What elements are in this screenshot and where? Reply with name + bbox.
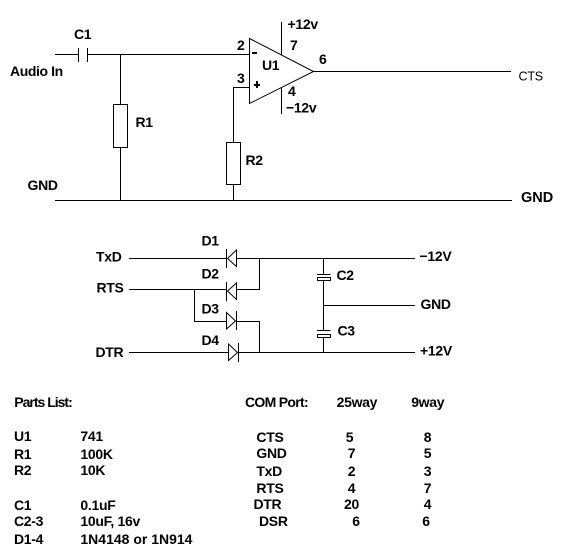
svg-text:5: 5 bbox=[346, 429, 354, 445]
wire: GND to C3 bbox=[323, 306, 325, 331]
svg-text:D2: D2 bbox=[202, 266, 220, 282]
wire: D4 to +12V rail bbox=[239, 352, 416, 354]
capacitor C3 bbox=[317, 331, 331, 338]
svg-text:DSR: DSR bbox=[259, 513, 288, 529]
wire: RTS to D2 bbox=[129, 289, 227, 291]
svg-text:GND: GND bbox=[256, 445, 286, 461]
svg-text:RTS: RTS bbox=[97, 280, 124, 296]
svg-text:4: 4 bbox=[348, 480, 356, 496]
wire: -12V rail to C2 bbox=[323, 259, 325, 275]
svg-text:3: 3 bbox=[424, 463, 432, 479]
wire: GND rail (middle) bbox=[324, 305, 416, 307]
table row DTR bbox=[254, 496, 432, 512]
svg-text:D1: D1 bbox=[202, 233, 220, 249]
svg-text:C3: C3 bbox=[338, 323, 356, 339]
svg-text:D4: D4 bbox=[202, 332, 220, 348]
svg-text:6: 6 bbox=[352, 513, 360, 529]
svg-text:−12V: −12V bbox=[420, 248, 453, 264]
capacitor C1 bbox=[79, 48, 88, 62]
svg-text:CTS: CTS bbox=[256, 429, 283, 445]
wire: pin 4 -12v supply bbox=[281, 88, 283, 115]
svg-text:6: 6 bbox=[319, 51, 327, 67]
wire: Audio In lead bbox=[55, 54, 78, 56]
diode D2 bbox=[227, 282, 237, 301]
table row CTS bbox=[256, 429, 431, 445]
svg-text:COM Port:: COM Port: bbox=[245, 394, 308, 410]
wire: TxD to D1 bbox=[129, 258, 227, 260]
svg-text:5: 5 bbox=[424, 445, 432, 461]
svg-text:CTS: CTS bbox=[519, 70, 543, 84]
resistor R2 bbox=[227, 143, 241, 185]
wire: node to R1 top bbox=[120, 55, 122, 105]
svg-text:6: 6 bbox=[422, 513, 430, 529]
svg-text:TxD: TxD bbox=[96, 249, 122, 265]
wire: R1 to ground rail bbox=[120, 148, 122, 201]
svg-text:R2: R2 bbox=[246, 152, 264, 168]
svg-text:10K: 10K bbox=[80, 462, 105, 478]
diode D1 bbox=[227, 249, 237, 268]
svg-text:20: 20 bbox=[344, 496, 359, 512]
svg-text:C2: C2 bbox=[337, 267, 355, 283]
svg-text:D3: D3 bbox=[202, 301, 220, 317]
svg-text:+12V: +12V bbox=[420, 343, 453, 359]
svg-text:Parts List:: Parts List: bbox=[14, 394, 72, 410]
svg-text:D1-4: D1-4 bbox=[14, 531, 44, 547]
svg-text:9way: 9way bbox=[411, 394, 445, 410]
svg-text:GND: GND bbox=[28, 177, 58, 193]
svg-text:R1: R1 bbox=[136, 114, 154, 130]
table row RTS bbox=[256, 480, 431, 496]
svg-text:100K: 100K bbox=[80, 446, 112, 462]
svg-text:Audio In: Audio In bbox=[10, 63, 63, 79]
table row GND bbox=[256, 445, 431, 461]
wire: D3 to D4 anode junction bbox=[237, 322, 260, 353]
svg-text:4: 4 bbox=[288, 83, 296, 99]
svg-text:741: 741 bbox=[80, 428, 103, 444]
wire: C1 to U1 pin 2 bbox=[88, 54, 250, 56]
svg-text:R2: R2 bbox=[14, 462, 32, 478]
svg-text:8: 8 bbox=[424, 429, 432, 445]
diode D3 bbox=[227, 311, 237, 330]
svg-text:U1: U1 bbox=[14, 428, 32, 444]
svg-text:GND: GND bbox=[521, 190, 553, 206]
wire: C3 to +12V rail bbox=[323, 338, 325, 353]
COM port table header bbox=[245, 394, 445, 410]
diode D4 bbox=[229, 343, 239, 362]
wire: D2 to D1 cathode junction bbox=[237, 259, 260, 290]
svg-text:R1: R1 bbox=[14, 446, 32, 462]
svg-text:25way: 25way bbox=[337, 394, 378, 410]
svg-text:2: 2 bbox=[237, 37, 245, 53]
svg-text:C1: C1 bbox=[74, 26, 92, 42]
wire: C2 to GND rail bbox=[323, 281, 325, 306]
svg-text:C2-3: C2-3 bbox=[14, 513, 44, 529]
table row TxD bbox=[256, 463, 431, 479]
wire: U1 output to CTS bbox=[314, 71, 512, 73]
svg-text:−12v: −12v bbox=[286, 100, 317, 116]
svg-text:4: 4 bbox=[424, 496, 432, 512]
capacitor C2 bbox=[317, 275, 331, 281]
resistor R1 bbox=[114, 105, 128, 148]
svg-text:0.1uF: 0.1uF bbox=[80, 497, 116, 513]
svg-text:TxD: TxD bbox=[256, 463, 282, 479]
wire: D1 to -12V rail bbox=[237, 258, 416, 260]
svg-text:GND: GND bbox=[421, 296, 451, 312]
wire: ground rail bbox=[55, 200, 512, 202]
wire: DTR to D4 bbox=[129, 352, 229, 354]
svg-text:DTR: DTR bbox=[96, 344, 124, 360]
op-amp U1 bbox=[250, 39, 314, 104]
svg-text:2: 2 bbox=[348, 463, 356, 479]
svg-text:7: 7 bbox=[290, 37, 298, 53]
wire: pin 3 to R2 bbox=[234, 88, 250, 143]
svg-text:DTR: DTR bbox=[254, 496, 282, 512]
table row DSR bbox=[259, 513, 430, 529]
svg-text:U1: U1 bbox=[262, 57, 280, 73]
svg-text:RTS: RTS bbox=[256, 480, 283, 496]
wire: pin 7 +12v supply bbox=[281, 22, 283, 55]
svg-text:3: 3 bbox=[237, 70, 245, 86]
svg-text:+12v: +12v bbox=[288, 16, 319, 32]
svg-text:7: 7 bbox=[424, 480, 432, 496]
wire: R2 to ground rail bbox=[233, 185, 235, 201]
wire: RTS branch to D3 bbox=[195, 290, 227, 322]
svg-text:1N4148 or 1N914: 1N4148 or 1N914 bbox=[80, 531, 192, 547]
svg-text:C1: C1 bbox=[14, 497, 32, 513]
svg-text:7: 7 bbox=[348, 445, 356, 461]
svg-text:10uF, 16v: 10uF, 16v bbox=[80, 513, 140, 529]
